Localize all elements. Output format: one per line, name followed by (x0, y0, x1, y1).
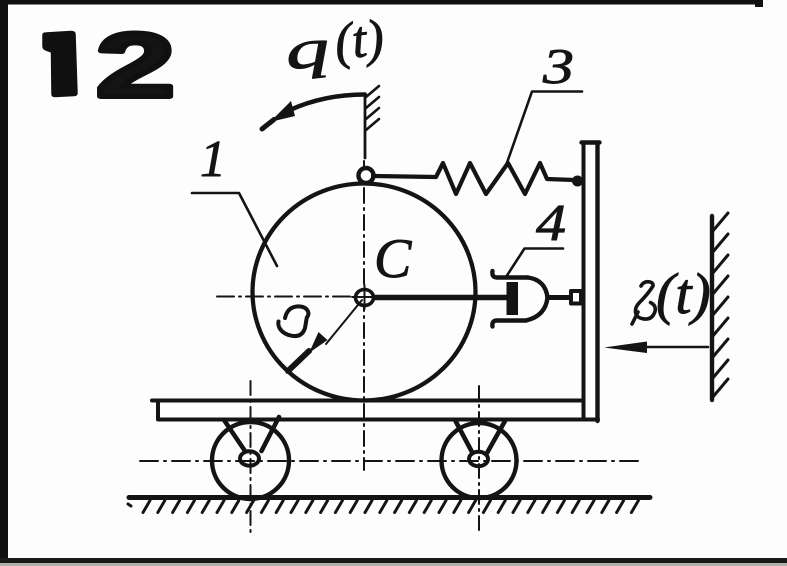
frame bottom border (0, 558, 787, 563)
spring 3 (373, 163, 574, 194)
cart platform (158, 401, 584, 420)
svg-text:4: 4 (536, 195, 566, 252)
svg-text:1: 1 (200, 131, 226, 188)
svg-text:2: 2 (96, 16, 175, 117)
leader line for 1 (192, 193, 277, 266)
frame left border (0, 0, 8, 561)
damper piston plate (507, 282, 519, 315)
leader line for 4 (506, 249, 563, 278)
wheels horizontal centerline (140, 460, 640, 462)
wheel 1 hub (240, 451, 259, 465)
ground line (129, 495, 650, 500)
label S(t) (632, 282, 655, 324)
support hatching at top (366, 86, 379, 130)
ground hatching (128, 501, 638, 513)
damper end connector square (571, 291, 581, 304)
wheel 2 vertical centerline (478, 386, 480, 535)
wheel 2 fork (455, 420, 505, 453)
wheel 1 vertical centerline (250, 381, 252, 537)
center symbol C (356, 290, 374, 306)
svg-text:C: C (374, 228, 412, 290)
damper cylinder top lip (492, 271, 528, 278)
svg-text:3: 3 (542, 38, 574, 94)
pivot at top of disc (359, 168, 374, 183)
wheel 2 hub (469, 452, 488, 466)
svg-text:(t): (t) (656, 261, 711, 326)
wall hatching (712, 213, 728, 398)
damper output rod (548, 295, 571, 300)
spring attachment dot (572, 176, 583, 187)
label q(t) (282, 9, 387, 81)
wall (hatched, right side) (710, 216, 714, 400)
wheel 1 (212, 422, 289, 499)
disc 1 (big circle) (253, 184, 476, 401)
label 2 (rotated) (278, 306, 308, 336)
leader line for 3 (506, 92, 583, 168)
wheel 2 (442, 423, 517, 498)
wheel 1 fork (224, 417, 279, 451)
bracket (vertical arm on cart) (582, 143, 586, 420)
svg-text:q: q (282, 17, 332, 81)
centerline horizontal through disc center (217, 296, 372, 298)
damper cylinder bottom lip (492, 321, 526, 327)
svg-text:(t): (t) (332, 9, 387, 71)
damper 4 piston rod (374, 295, 507, 301)
damper cylinder arch (526, 278, 548, 321)
S(t) arrow (640, 346, 708, 349)
curved arrow for q(t) (290, 95, 365, 111)
frame top border (0, 0, 762, 5)
radius arrow for 2 (326, 300, 362, 344)
problem number 12 (43, 32, 77, 97)
fixed support stub (vertical line from top) (364, 95, 367, 158)
centerline vertical through disc (363, 161, 365, 470)
